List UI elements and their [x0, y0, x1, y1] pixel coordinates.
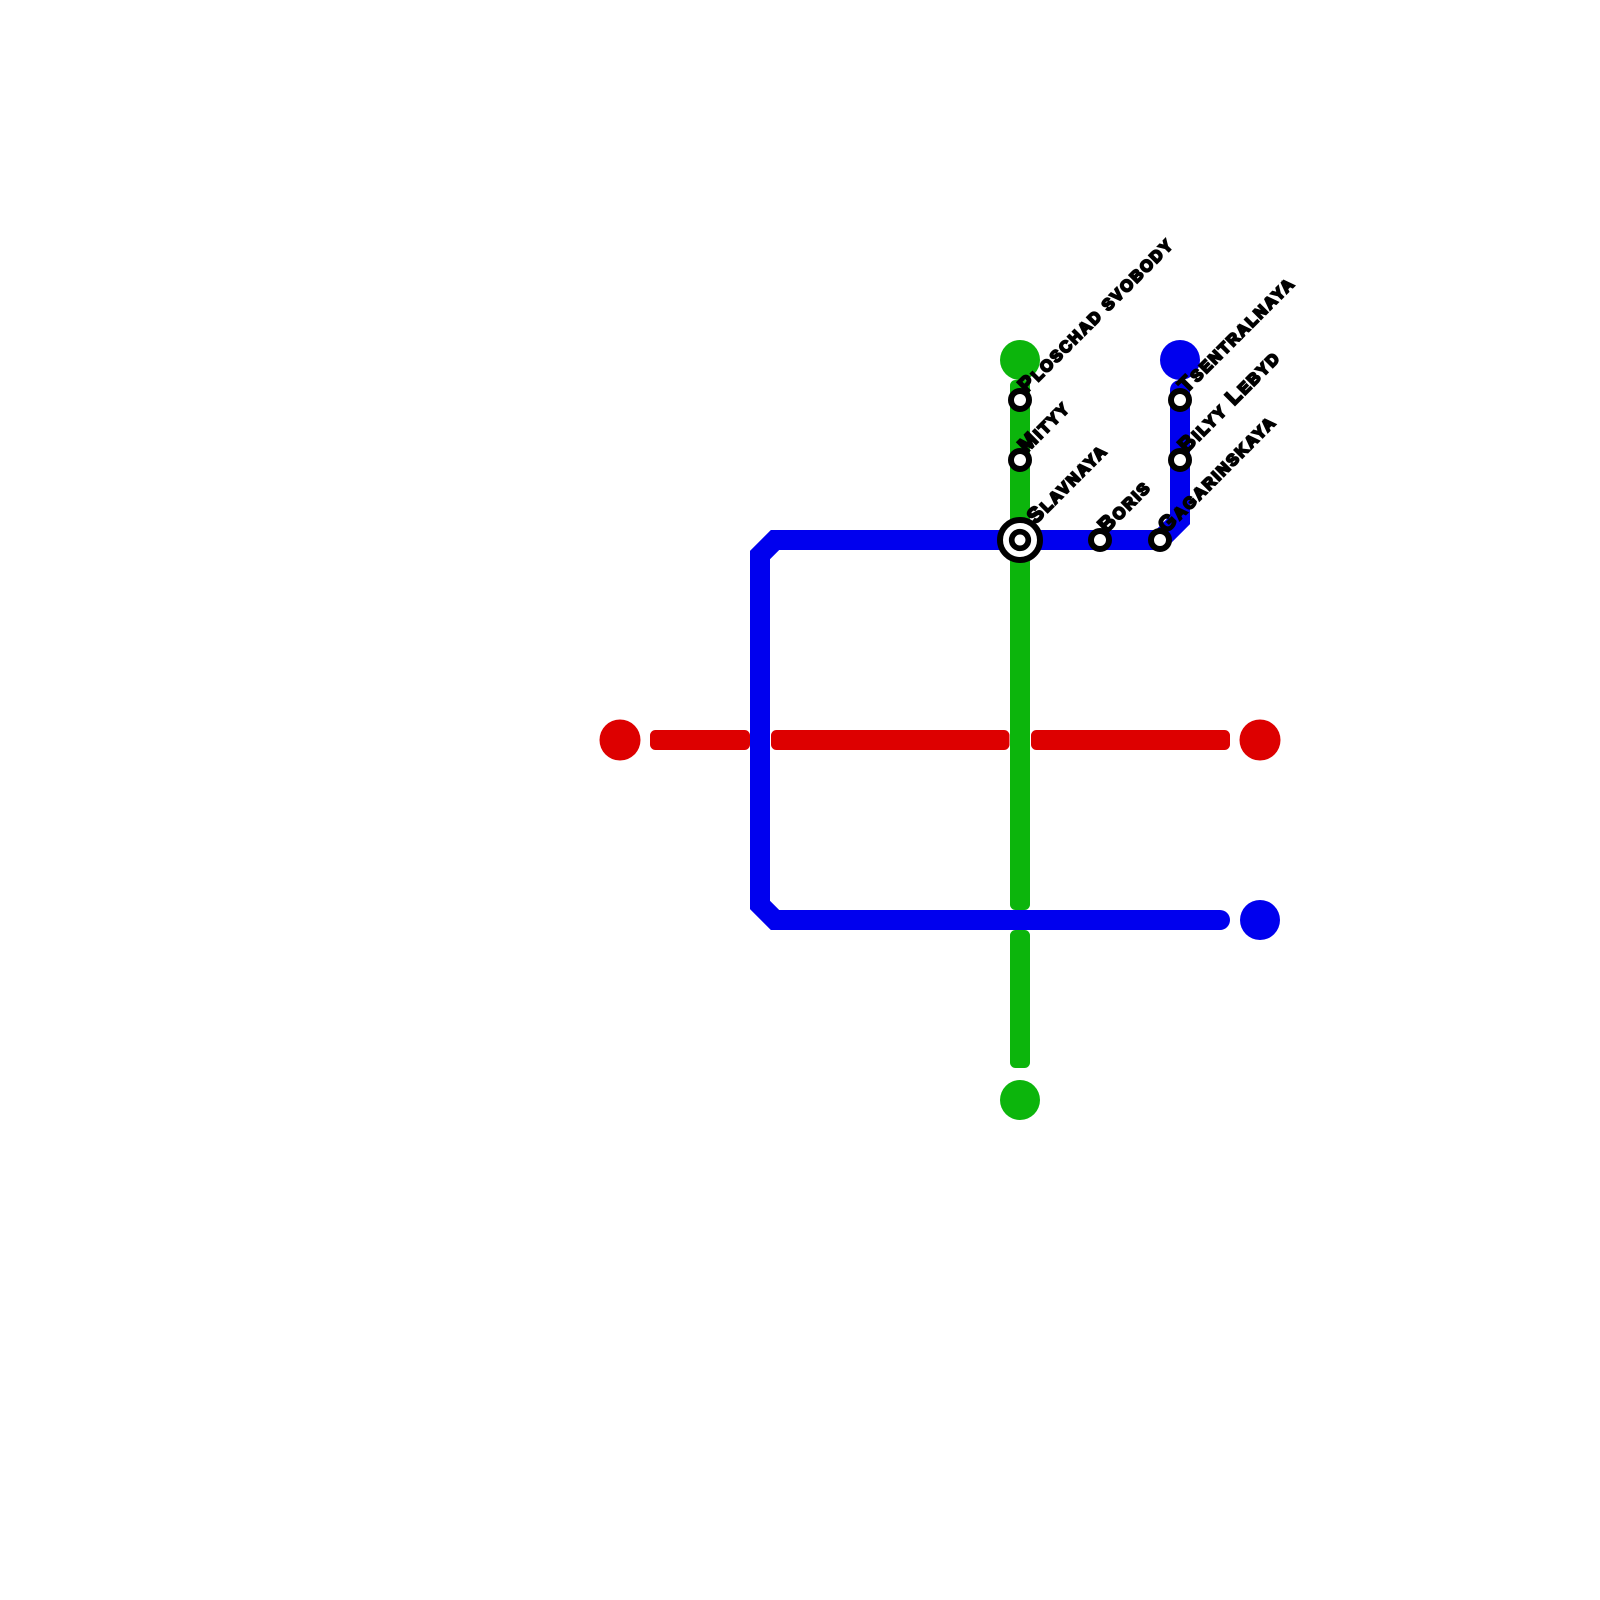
svg-text:PLOSCHAD SVOBODY: PLOSCHAD SVOBODY: [1014, 233, 1178, 397]
svg-text:BORIS: BORIS: [1094, 475, 1156, 537]
svg-text:TSENTRALNAYA: TSENTRALNAYA: [1174, 271, 1300, 397]
